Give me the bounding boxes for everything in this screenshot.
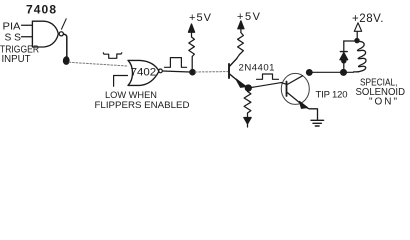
wire node B to Q1 base: [195, 71, 228, 73]
svg-text:+5V: +5V: [189, 12, 212, 24]
diode D1 flyback: [340, 41, 348, 72]
svg-text:FLIPPERS ENABLED: FLIPPERS ENABLED: [95, 100, 190, 111]
node PIA input label: [3, 21, 21, 33]
svg-text:TIP 120: TIP 120: [316, 90, 348, 101]
node A junction dot: [63, 57, 69, 65]
svg-text:LOW WHEN: LOW WHEN: [105, 90, 157, 101]
annotation waveform positive pulse at U2 output: [164, 58, 186, 68]
resistor R2 collector load: [237, 33, 244, 59]
wire U1 output to junction: [64, 34, 67, 58]
node SS input label: [5, 33, 22, 44]
resistor R3 emitter pulldown: [244, 91, 251, 118]
inductor L1 special solenoid coil: [354, 41, 366, 71]
wire Q2 emitter to ground: [307, 108, 318, 120]
wire pointer from 7408 label to gate output: [62, 19, 67, 29]
transistor Q1 2N4401: [229, 59, 275, 88]
annotation note LOW WHEN FLIPPERS ENABLED: [95, 90, 190, 111]
wire U2 output to node B: [163, 71, 191, 72]
wire PIA input dash: [22, 24, 33, 26]
wire node A to U2 input 1: [69, 62, 128, 66]
power +5V symbol 2: [237, 11, 261, 33]
svg-text:S S: S S: [5, 33, 22, 44]
power +5V symbol 1: [188, 12, 211, 37]
node F coil top junction dot: [355, 39, 359, 43]
power +28V symbol: [352, 13, 384, 40]
svg-text:+28V.: +28V.: [352, 13, 384, 25]
annotation waveform positive pulse at Q2 base: [257, 74, 279, 79]
svg-text:7402: 7402: [131, 66, 157, 78]
annotation label SPECIAL SOLENOID ON: [356, 76, 406, 107]
node C emitter junction dot: [245, 85, 251, 91]
wire node D to solenoid: [312, 71, 354, 73]
svg-text:PIA: PIA: [3, 21, 21, 33]
NOR gate U2 label 7402: [131, 66, 157, 78]
wire U2 input 2 bracket: [114, 76, 128, 87]
IC label 7408: [26, 3, 56, 17]
NOR gate U2 7402 body: [128, 60, 159, 85]
AND gate U1 output bubble: [59, 32, 63, 36]
ground arrow at R3: [244, 118, 251, 128]
annotation waveform negative pulse at U2 input: [103, 53, 122, 59]
svg-text:INPUT: INPUT: [2, 54, 31, 65]
wire diode top to coil top: [344, 40, 357, 42]
svg-text:7408: 7408: [26, 3, 56, 17]
node TRIGGER INPUT label: [0, 45, 39, 66]
resistor R1 pull-up: [189, 37, 195, 70]
wire SS input dash: [22, 36, 33, 38]
AND gate U1 7408 body: [32, 21, 58, 47]
node B junction dot: [190, 70, 195, 75]
svg-text:"ON": "ON": [369, 97, 397, 108]
node D collector junction dot: [307, 70, 313, 76]
node E diode bottom junction dot: [341, 70, 347, 76]
wire node C to Q2 base: [251, 83, 281, 88]
ground symbol earth: [311, 120, 324, 126]
svg-text:2N4401: 2N4401: [239, 63, 275, 74]
NOR gate U2 output bubble: [159, 69, 163, 73]
transistor Q2 TIP 120: [281, 73, 347, 108]
